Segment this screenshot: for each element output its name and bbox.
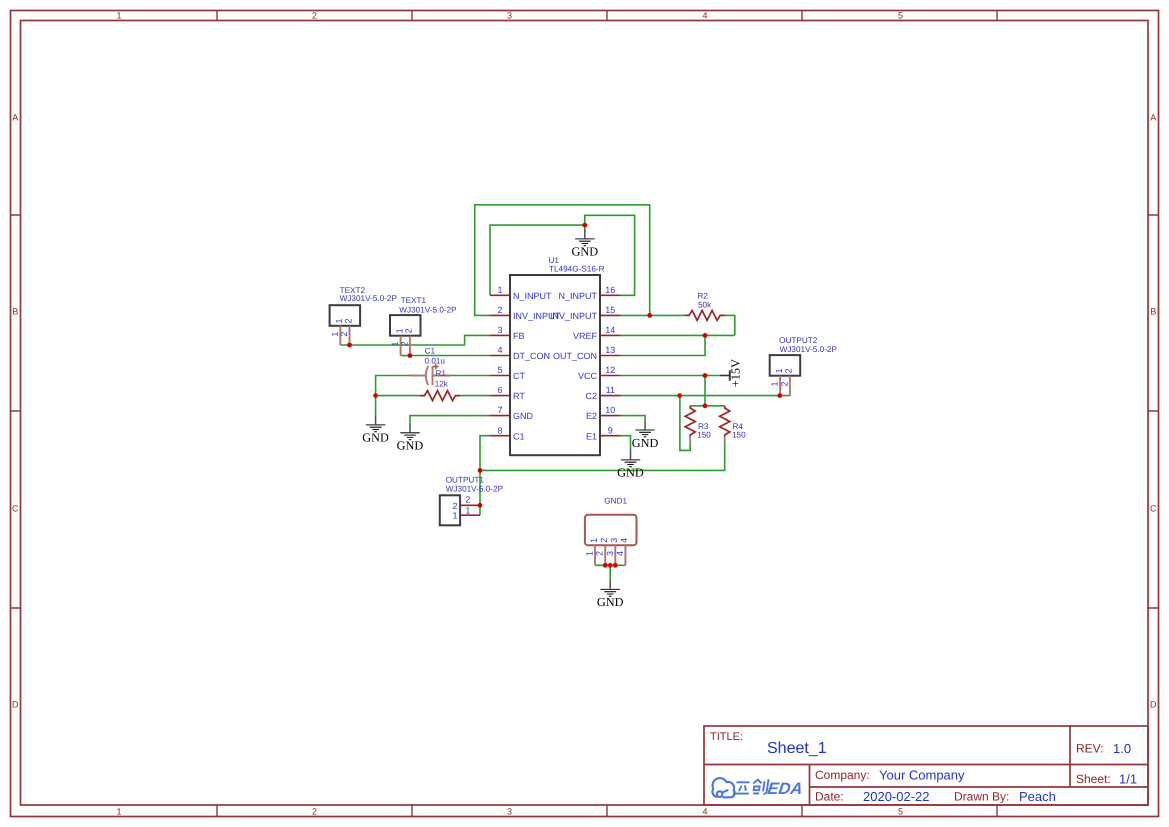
svg-text:1: 1: [770, 381, 780, 386]
svg-text:16: 16: [605, 285, 615, 295]
svg-text:2: 2: [312, 807, 317, 817]
svg-text:1.0: 1.0: [1113, 741, 1131, 756]
U1 right pin stubs pins 16-9: [600, 295, 621, 435]
svg-text:C: C: [1150, 504, 1157, 514]
title block values: [767, 740, 1137, 804]
connector TEXT2 WJ301V-5.0-2P: [330, 305, 361, 345]
column labels top: [116, 11, 903, 21]
OUTPUT2 labels: [779, 336, 837, 354]
svg-text:2: 2: [599, 538, 609, 543]
svg-text:Sheet:: Sheet:: [1076, 772, 1111, 786]
junction on C2 net at OUTPUT2 pin1: [777, 393, 782, 398]
svg-text:C2: C2: [585, 391, 597, 401]
wire R3 bottom loop to C2 line: [680, 396, 690, 451]
svg-text:GND: GND: [397, 439, 424, 453]
svg-text:15: 15: [605, 305, 615, 315]
svg-text:REV:: REV:: [1076, 742, 1104, 756]
svg-text:4: 4: [497, 345, 502, 355]
svg-text:+15V: +15V: [728, 359, 742, 387]
svg-text:0.01u: 0.01u: [425, 356, 446, 365]
svg-text:WJ301V-5.0-2P: WJ301V-5.0-2P: [446, 485, 504, 494]
svg-text:5: 5: [898, 11, 903, 21]
wire pin7 GND to gnd flag: [410, 416, 490, 424]
capacitor C1 0.01u polarized: [410, 364, 450, 385]
column ticks bottom: [217, 805, 997, 817]
svg-text:4: 4: [619, 538, 629, 543]
svg-text:2: 2: [452, 501, 457, 511]
svg-text:150: 150: [732, 431, 746, 440]
svg-text:10: 10: [605, 405, 615, 415]
TEXT2 pin digits: [330, 318, 354, 336]
wire R4 bottom down and left to OUTPUT1 node: [480, 442, 725, 471]
svg-text:3: 3: [507, 807, 512, 817]
svg-text:1: 1: [585, 551, 595, 556]
TEXT1 pin digits: [390, 328, 414, 346]
svg-text:WJ301V-5.0-2P: WJ301V-5.0-2P: [399, 305, 457, 314]
svg-text:1: 1: [497, 285, 502, 295]
svg-text:INV_INPUT: INV_INPUT: [550, 311, 598, 321]
wire RT node to R1 left: [376, 395, 420, 397]
ground flag at pin7: [397, 423, 424, 452]
junction on VCC net: [703, 373, 708, 378]
svg-text:C1: C1: [513, 431, 525, 441]
junction at OUTPUT1 pin2: [478, 503, 483, 508]
svg-text:Peach: Peach: [1019, 789, 1056, 804]
svg-text:GND: GND: [362, 431, 389, 445]
svg-text:2: 2: [595, 551, 605, 556]
svg-text:5: 5: [497, 365, 502, 375]
junction at OUTPUT1 net and R4: [478, 468, 483, 473]
wire pin2 INV_INPUT loop to pin15: [475, 205, 650, 316]
wire R1 right to pin6 RT: [460, 395, 490, 397]
svg-text:CT: CT: [513, 371, 525, 381]
svg-text:13: 13: [605, 345, 615, 355]
wire pin4 DT_CON to TEXT1: [401, 355, 490, 357]
svg-text:2: 2: [497, 305, 502, 315]
svg-text:2: 2: [312, 11, 317, 21]
power flag +15V: [720, 359, 743, 387]
svg-text:E1: E1: [586, 431, 597, 441]
wire pin5 CT to C1 right: [450, 375, 490, 377]
svg-text:1: 1: [452, 511, 457, 521]
svg-text:R4: R4: [733, 422, 744, 431]
IC U1 TL494G-S16-R body: [510, 275, 600, 455]
OUTPUT2 pin digits: [770, 368, 794, 386]
GND1 label: [604, 497, 627, 506]
wire pin14 VREF: [621, 334, 735, 336]
svg-text:C1: C1: [425, 347, 436, 356]
junction at CT RT gnd node: [373, 393, 378, 398]
svg-text:GND: GND: [571, 245, 598, 259]
ground flag at E1: [617, 451, 644, 480]
wire pin12 VCC to +15V flag: [621, 375, 720, 377]
R3 labels: [697, 422, 711, 440]
wire R2 right to VREF line: [725, 315, 735, 335]
ground flag at E2: [632, 421, 659, 450]
GND1 pin digits: [585, 538, 630, 556]
svg-text:4: 4: [702, 11, 707, 21]
svg-text:2020-02-22: 2020-02-22: [863, 789, 930, 804]
resistor R4 150: [720, 406, 730, 442]
R2 labels: [698, 291, 713, 309]
svg-text:DT_CON: DT_CON: [513, 351, 550, 361]
svg-text:OUT_CON: OUT_CON: [553, 351, 597, 361]
svg-text:VREF: VREF: [573, 331, 598, 341]
svg-text:1: 1: [116, 807, 121, 817]
svg-text:N_INPUT: N_INPUT: [513, 291, 552, 301]
svg-text:Your Company: Your Company: [879, 768, 965, 783]
svg-text:B: B: [1150, 307, 1156, 317]
svg-text:WJ301V-5.0-2P: WJ301V-5.0-2P: [780, 345, 838, 354]
svg-text:6: 6: [497, 385, 502, 395]
svg-text:R3: R3: [698, 422, 709, 431]
svg-text:GND: GND: [617, 466, 644, 480]
svg-text:4: 4: [615, 551, 625, 556]
svg-text:5: 5: [898, 807, 903, 817]
svg-text:3: 3: [609, 538, 619, 543]
svg-text:12k: 12k: [435, 379, 449, 388]
connector GND1 header: [585, 515, 637, 566]
svg-text:2: 2: [465, 495, 470, 505]
svg-text:E2: E2: [586, 411, 597, 421]
svg-text:OUTPUT2: OUTPUT2: [779, 336, 818, 345]
OUTPUT1 pin digits: [452, 495, 470, 521]
svg-text:3: 3: [507, 11, 512, 21]
wire C1 left down to RT node and gnd: [376, 376, 410, 416]
svg-text:1: 1: [116, 11, 121, 21]
ground flag at R1 node: [362, 416, 389, 445]
logo lceda cloud: [712, 778, 734, 797]
svg-text:12: 12: [605, 365, 615, 375]
junction at TEXT2 pin2: [347, 343, 352, 348]
U1 left pin stubs pins 1-8: [490, 295, 510, 435]
svg-text:1: 1: [465, 505, 470, 515]
junction at GND1 center tap: [608, 563, 613, 568]
wire pin8 C1 down to OUTPUT1: [480, 436, 490, 516]
connector OUTPUT1 WJ301V-5.0-2P: [440, 495, 480, 525]
U1 pin numbers right: [605, 285, 615, 435]
U1 pin names left: [513, 291, 561, 441]
wire pin16 N_INPUT loop to gnd node: [585, 215, 635, 295]
svg-text:3: 3: [605, 551, 615, 556]
svg-text:B: B: [12, 307, 18, 317]
connector OUTPUT2 WJ301V-5.0-2P: [770, 355, 801, 396]
row labels left: [12, 113, 19, 710]
junction at GND1 pin3: [613, 563, 618, 568]
R4 labels: [732, 422, 746, 440]
svg-text:2: 2: [784, 368, 794, 373]
svg-text:1: 1: [589, 538, 599, 543]
resistor R1 12k: [420, 391, 460, 401]
connector TEXT1 WJ301V-5.0-2P: [390, 315, 421, 356]
svg-text:GND: GND: [597, 595, 624, 609]
svg-text:OUTPUT1: OUTPUT1: [446, 476, 485, 485]
title block labels: [710, 731, 1111, 804]
svg-text:GND: GND: [513, 411, 534, 421]
svg-text:Sheet_1: Sheet_1: [767, 740, 827, 757]
junction at TEXT1 pin2: [408, 353, 413, 358]
svg-text:9: 9: [608, 425, 613, 435]
logo text 立创EDA: [733, 779, 769, 794]
svg-text:C: C: [12, 504, 19, 514]
wire pin15 to R2: [621, 314, 685, 316]
svg-text:D: D: [1150, 700, 1157, 710]
junction on VREF net: [703, 333, 708, 338]
U1 reference labels: [549, 256, 605, 273]
wire VCC node down to R3 R4 bus: [704, 376, 706, 406]
svg-text:WJ301V-5.0-2P: WJ301V-5.0-2P: [340, 294, 398, 303]
svg-text:A: A: [12, 113, 18, 123]
svg-text:A: A: [1150, 113, 1156, 123]
OUTPUT1 labels: [446, 476, 504, 494]
svg-text:11: 11: [606, 385, 615, 395]
svg-text:GND: GND: [632, 436, 659, 450]
wire GND1 pins bus to gnd: [595, 565, 625, 580]
svg-text:GND1: GND1: [604, 497, 627, 506]
svg-text:14: 14: [605, 325, 615, 335]
svg-text:Date:: Date:: [815, 790, 844, 804]
svg-text:3: 3: [497, 325, 502, 335]
junction at R3 R4 tops: [703, 403, 708, 408]
C1 labels: [425, 347, 446, 366]
row labels right: [1150, 113, 1157, 710]
svg-text:R2: R2: [698, 291, 709, 300]
svg-text:2: 2: [399, 341, 409, 346]
junction on pin15 net: [647, 313, 652, 318]
junction on C2 net at R3: [677, 393, 682, 398]
resistor R3 150: [685, 406, 695, 442]
wire pin1 N_INPUT up to gnd node: [490, 225, 585, 295]
svg-text:TEXT1: TEXT1: [401, 296, 427, 305]
wire pin9 E1 to gnd: [621, 436, 631, 451]
wire pin10 E2 to gnd: [621, 416, 646, 421]
row ticks left: [11, 215, 21, 608]
ground flag at GND1: [597, 580, 624, 609]
svg-text:RT: RT: [513, 391, 525, 401]
svg-text:1/1: 1/1: [1119, 772, 1137, 787]
U1 pin numbers left: [497, 285, 502, 435]
U1 pin names right: [550, 291, 598, 441]
svg-text:VCC: VCC: [578, 371, 598, 381]
wire R3 R4 top bus: [690, 405, 725, 407]
svg-text:TL494G-S16-R: TL494G-S16-R: [549, 264, 605, 273]
ground flag top: [571, 230, 598, 259]
wire pin3 FB to TEXT2: [340, 335, 490, 345]
svg-text:FB: FB: [513, 331, 525, 341]
junction at GND1 pin2: [603, 563, 608, 568]
column ticks top: [217, 11, 997, 21]
svg-text:150: 150: [697, 431, 711, 440]
TEXT1 labels: [399, 296, 457, 314]
svg-text:D: D: [12, 700, 19, 710]
TEXT2 labels: [340, 286, 398, 303]
wire VREF node down to pin13 OUT_CON: [621, 335, 706, 355]
wire pin11 C2 to OUTPUT2: [621, 395, 790, 397]
svg-text:TITLE:: TITLE:: [710, 731, 743, 743]
svg-text:R1: R1: [436, 369, 447, 378]
svg-text:1: 1: [774, 368, 784, 373]
svg-text:50k: 50k: [698, 301, 712, 310]
svg-text:2: 2: [779, 381, 789, 386]
title block grid: [704, 726, 1148, 805]
row ticks right: [1148, 215, 1159, 608]
svg-text:EDA: EDA: [766, 780, 803, 798]
resistor R2 50k: [685, 310, 725, 320]
svg-text:2: 2: [343, 318, 353, 323]
column labels bottom: [116, 807, 903, 817]
junction at top gnd node: [582, 223, 587, 228]
svg-text:2: 2: [404, 328, 414, 333]
svg-text:4: 4: [702, 807, 707, 817]
svg-text:Drawn By:: Drawn By:: [954, 790, 1009, 804]
svg-text:Company:: Company:: [815, 768, 870, 782]
svg-text:7: 7: [497, 405, 502, 415]
svg-text:2: 2: [339, 332, 349, 337]
R1 labels: [435, 369, 449, 388]
svg-text:8: 8: [497, 425, 502, 435]
svg-text:N_INPUT: N_INPUT: [558, 291, 597, 301]
